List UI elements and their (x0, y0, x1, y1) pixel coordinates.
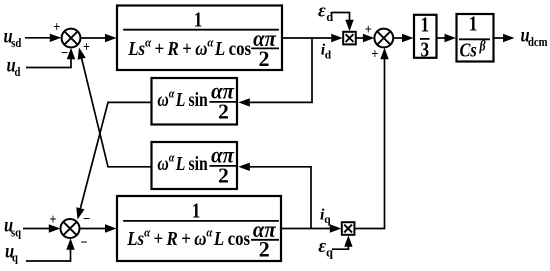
sign - (u_d at S1) (61, 44, 68, 60)
wire u_sd to summing junction S1 (25, 34, 61, 42)
svg-text:ε: ε (318, 0, 326, 21)
svg-text:Lsα + R + ωα L cos: Lsα + R + ωα L cos (126, 225, 250, 251)
svg-text:q: q (326, 246, 333, 260)
svg-text:+: + (365, 21, 372, 37)
summing junction S3 (374, 29, 393, 48)
svg-text:+: + (53, 18, 60, 34)
svg-text:2: 2 (218, 164, 229, 188)
SIN2 mini fraction api/2 (211, 142, 235, 187)
svg-text:+: + (83, 38, 90, 54)
block B1 transfer function 1/(Ls^a+R+w^a L cos(api/2)) (117, 6, 282, 71)
svg-text:Lsα + R + ωα L cos: Lsα + R + ωα L cos (127, 34, 251, 60)
sign + (M1 at S3) (365, 21, 372, 37)
svg-text:q: q (12, 249, 18, 264)
svg-text:q: q (324, 214, 331, 226)
wire u_d to S1 (26, 48, 75, 68)
multiplier M2 (342, 222, 355, 235)
summing junction S1 (62, 29, 81, 48)
summing junction S2 (61, 219, 80, 238)
B1 fraction bar (123, 29, 279, 31)
wire B1 output to multiplier M1 with node J1 (282, 34, 343, 42)
block SIN2 w^a L sin(api/2) (152, 142, 238, 189)
B1 denominator Ls^a+R+w^a L cos (127, 34, 251, 60)
label u_sd (4, 25, 22, 50)
wire Cs output to u_dcm (494, 34, 515, 42)
wire SIN2 output diagonal to S1 (78, 48, 152, 167)
wire node J1 down to sin block SIN1 (238, 38, 312, 107)
label i_q (320, 207, 331, 227)
B2 fraction bar (123, 220, 279, 222)
sign + (u_sd at S1) (53, 18, 60, 34)
sign + (u_sq at S2) (49, 211, 56, 227)
block onethird 1/3 (414, 15, 437, 58)
svg-text:d: d (15, 64, 21, 79)
block B2 transfer function 1/(Ls^a+R+w^a L cos(api/2)) (117, 196, 281, 261)
SIN1 mini fraction api/2 (211, 78, 235, 123)
svg-text:sd: sd (11, 35, 21, 50)
wire u_sq to summing junction S2 (23, 224, 60, 232)
svg-text:2: 2 (259, 46, 270, 71)
svg-text:β: β (479, 37, 486, 53)
svg-text:d: d (325, 49, 332, 61)
label u_d (7, 54, 21, 79)
svg-text:−: − (80, 234, 87, 250)
block Cs 1/(Cs^b) (457, 14, 494, 62)
wire S2 to block B2 (80, 224, 117, 232)
svg-text:−: − (83, 210, 90, 226)
B1 mini fraction api/2 (253, 26, 277, 71)
sign - (SIN1 input at S2) (83, 210, 90, 226)
onethird denominator 3 (420, 39, 429, 62)
sign - (u_q at S2) (80, 234, 87, 250)
svg-text:2: 2 (218, 100, 229, 124)
wire M2 output up to S3 (354, 48, 389, 229)
wire e_d to multiplier M1 (332, 13, 354, 32)
wire B2 output to multiplier M2 with node J2 (281, 224, 341, 232)
multiplier M1 (343, 32, 356, 45)
block SIN1 w^a L sin(api/2) (152, 78, 238, 125)
svg-text:1: 1 (194, 9, 203, 32)
B2 mini fraction api/2 (253, 217, 277, 261)
label u_dcm (521, 24, 548, 49)
wire S3 to block onethird (393, 34, 413, 42)
wire SIN1 output diagonal to S2 (76, 102, 151, 219)
svg-text:ωα L sin: ωα L sin (157, 151, 207, 175)
wire S1 to block B1 (80, 34, 116, 42)
svg-text:ωα L sin: ωα L sin (157, 87, 207, 111)
onethird fraction bar (420, 38, 430, 40)
wire onethird to block Cs (437, 34, 457, 42)
label e_d (318, 0, 333, 24)
wire u_q to S2 (26, 238, 75, 261)
svg-text:1: 1 (469, 13, 478, 36)
label i_d (321, 42, 332, 62)
SIN2 text w^a L sin (157, 151, 207, 175)
Cs numerator 1 (469, 13, 478, 36)
B1 numerator 1 (194, 9, 203, 32)
wire M1 to summing junction S3 (356, 34, 375, 42)
label u_q (5, 240, 18, 265)
svg-text:3: 3 (420, 39, 429, 62)
svg-text:+: + (49, 211, 56, 227)
Cs fraction bar (459, 38, 490, 40)
svg-text:1: 1 (420, 14, 429, 37)
svg-text:1: 1 (192, 200, 201, 223)
sign + (decoupling input at S1) (83, 38, 90, 54)
svg-text:dcm: dcm (528, 34, 548, 49)
svg-text:sq: sq (11, 224, 21, 239)
B2 denominator Ls^a+R+w^a L cos (126, 225, 250, 251)
wire node J2 up to SIN2 input (238, 163, 311, 229)
svg-text:+: + (371, 45, 378, 61)
svg-text:Cs: Cs (460, 39, 477, 61)
SIN1 text w^a L sin (157, 87, 207, 111)
wire e_q to multiplier M2 (332, 235, 353, 249)
B2 numerator 1 (192, 200, 201, 223)
onethird numerator 1 (420, 14, 429, 37)
label u_sq (4, 214, 21, 240)
sign + (M2 at S3) (371, 45, 378, 61)
label e_q (318, 236, 333, 260)
Cs denominator Cs^b (460, 37, 486, 61)
